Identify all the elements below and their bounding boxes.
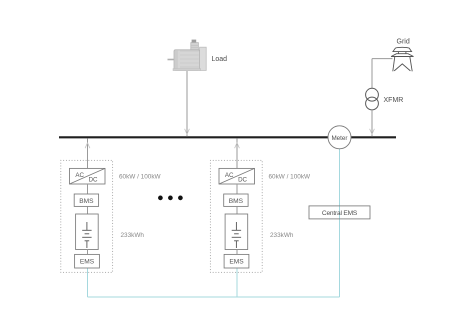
- load motor icon: [168, 40, 207, 71]
- svg-text:Grid: Grid: [397, 39, 410, 46]
- wire converter to BMS: [236, 184, 238, 194]
- converter AC/DC: [70, 168, 106, 184]
- wire load to bus: [185, 71, 190, 137]
- BMS 1: [74, 194, 98, 206]
- meter: [328, 126, 351, 149]
- comm wire EMS1 down: [87, 268, 89, 297]
- svg-text:EMS: EMS: [229, 259, 244, 266]
- wire battery to EMS: [87, 250, 89, 255]
- svg-text:60kW / 100kW: 60kW / 100kW: [119, 174, 162, 181]
- svg-text:Load: Load: [212, 56, 228, 63]
- enclosure dashed: [210, 160, 262, 272]
- svg-text:Central EMS: Central EMS: [322, 210, 358, 217]
- enclosure dashed: [61, 160, 113, 272]
- svg-text:AC: AC: [225, 172, 234, 179]
- ellipsis: [158, 196, 183, 201]
- wire converter to BMS: [87, 184, 89, 194]
- EMS 1: [75, 254, 100, 268]
- svg-text:Meter: Meter: [331, 135, 347, 142]
- comm wire meter to central EMS to bottom: [339, 149, 341, 297]
- svg-text:AC: AC: [75, 172, 84, 179]
- svg-text:233kWh: 233kWh: [270, 232, 294, 239]
- comm wire EMS2 down: [236, 268, 238, 297]
- svg-text:DC: DC: [238, 177, 247, 184]
- svg-text:BMS: BMS: [229, 198, 244, 205]
- comm wire bottom horizontal: [88, 296, 340, 298]
- converter AC/DC: [219, 168, 255, 184]
- EMS 2: [224, 254, 249, 268]
- transformer XFMR: [366, 88, 379, 110]
- BESS unit 2: [210, 138, 311, 272]
- Central EMS: [309, 206, 370, 219]
- BESS unit 1: [61, 138, 162, 272]
- wire BMS to battery: [236, 206, 238, 214]
- grid tower: [391, 47, 413, 71]
- svg-text:233kWh: 233kWh: [121, 232, 145, 239]
- wire BMS to battery: [87, 206, 89, 214]
- wire grid to transformer: [372, 58, 393, 60]
- BMS 2: [224, 194, 248, 206]
- svg-text:EMS: EMS: [80, 259, 95, 266]
- svg-text:XFMR: XFMR: [384, 97, 404, 104]
- bus (main AC bus): [59, 136, 396, 138]
- battery 2: [225, 214, 248, 250]
- svg-text:DC: DC: [89, 177, 98, 184]
- wire bus to converter: [236, 138, 238, 168]
- wire battery to EMS: [236, 250, 238, 255]
- svg-text:BMS: BMS: [79, 198, 94, 205]
- battery 1: [76, 214, 99, 250]
- svg-text:60kW / 100kW: 60kW / 100kW: [269, 174, 312, 181]
- wire bus to converter: [87, 138, 89, 168]
- wire transformer to bus: [370, 110, 375, 137]
